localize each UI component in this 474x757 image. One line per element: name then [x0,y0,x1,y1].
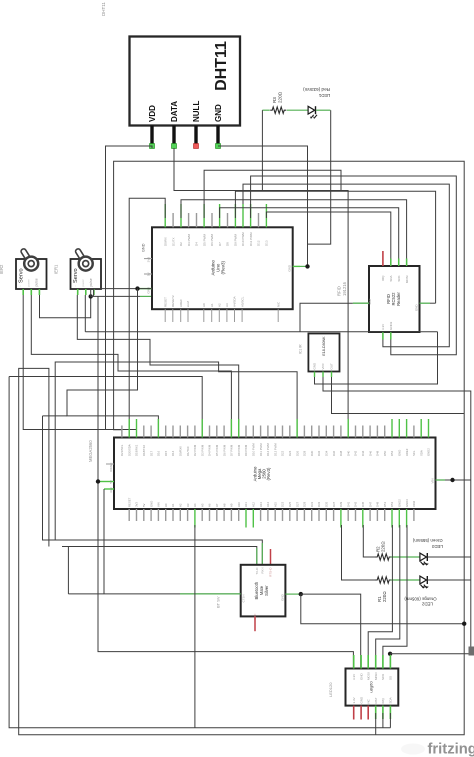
svg-text:D23: D23 [281,501,285,507]
module u8g60 title [369,681,374,693]
resistor R1 [375,577,391,583]
svg-text:D13: D13 [265,240,269,246]
svg-text:GND: GND [359,673,363,681]
E18 pin OUT [330,363,334,377]
u8g60 bottom pin SDA [389,697,393,719]
servo IER1 pin label gnd [73,286,77,287]
Uno top pin D12 [257,213,261,246]
svg-text:E18-D80NK: E18-D80NK [322,336,326,356]
junction servo gnd node [89,294,93,298]
svg-text:D10 PWM: D10 PWM [241,232,245,246]
long wire under Uno [85,331,437,333]
Uno top pin D13 [265,204,269,246]
wire servo2 gnd node [93,289,95,296]
Mega left pin 3V3 [104,487,114,493]
svg-text:RFID: RFID [337,286,342,296]
wire LED2 right [427,579,471,581]
svg-text:A1: A1 [210,303,214,307]
svg-text:D49: D49 [376,501,380,507]
RFID top pin SDA [389,259,393,282]
svg-text:D32: D32 [317,450,321,456]
junction LCD SS node [388,652,392,656]
svg-text:D1/TX: D1/TX [171,237,175,246]
Mega bottom pin D35 [325,501,329,521]
Mega top pin D44 [361,426,365,457]
svg-text:D1/TX0: D1/TX0 [186,446,190,456]
BT top pin RX-I [261,567,265,573]
DHT11 pin leg NULL [194,126,197,145]
label R3 [272,91,282,103]
Mega top pin D24 [288,426,292,457]
svg-text:Red (633nm): Red (633nm) [303,87,330,92]
servo IER1 horn [78,251,93,270]
Mega bottom pin D31 [310,501,314,521]
Mega top pin D3 PWM [200,419,204,456]
Mega top pin D0/RX0 [179,426,183,457]
Mega top pin D4 PWM [208,426,212,457]
E18 pin GND [313,362,317,377]
svg-text:D42: D42 [354,450,358,456]
label LED2 [404,597,437,607]
wire LED1 branch left segment [262,109,269,111]
svg-text:5V: 5V [109,480,113,484]
svg-text:A0: A0 [164,503,168,507]
fritzing logo text [428,742,474,757]
Mega bottom pin 5V [142,503,146,521]
svg-text:3V3: 3V3 [147,257,151,263]
RFID top pin MOSI [405,259,409,284]
Mega top pin D48 [376,426,380,457]
Mega top pin D2 PWM [193,426,197,457]
svg-text:IRQ: IRQ [381,698,385,704]
servo IER1 pin label power [81,279,85,286]
svg-text:A7: A7 [215,503,219,507]
Mega bottom pin A15 [273,502,277,521]
u8g60 bottom pin GND [359,696,363,720]
wire servo1 gnd to node [40,295,91,318]
E18 pin VCC [321,362,325,377]
wire Uno D13 to RFID [266,212,390,266]
svg-text:A3: A3 [225,303,229,307]
svg-text:D21/SCL: D21/SCL [120,444,124,456]
Mega top pin D8 PWM [237,419,241,456]
Uno bottom pin RESET [163,297,167,322]
svg-text:D0/RX0: D0/RX0 [179,446,183,456]
Mega bottom pin VIN [157,502,161,521]
svg-text:RESET2: RESET2 [171,295,175,307]
Uno bottom pin A4/SDA [233,296,237,322]
svg-text:MOSI: MOSI [366,672,370,680]
svg-text:LED3: LED3 [431,544,443,549]
svg-text:NULL: NULL [192,101,201,122]
Uno GND label [142,243,146,252]
wire LED1 right segment [316,109,331,111]
wire Uno D8 to RFID GND [235,191,435,303]
svg-text:A5: A5 [200,503,204,507]
wire E18 GND [315,332,438,384]
svg-text:3V3: 3V3 [135,502,139,507]
junction BT GND at outer rail [462,622,466,626]
svg-text:RX-I: RX-I [261,567,265,573]
wire BT CTS-I up [67,547,69,594]
svg-text:LED2: LED2 [421,602,433,607]
wire RFID GND to rail [430,302,436,304]
label LED1 [303,87,331,98]
svg-text:Silver: Silver [264,585,269,596]
DHT11 pin label VDD [148,105,157,122]
Uno top pin D8 [226,213,230,246]
mcu Arduino Mega outline [114,438,436,510]
svg-text:A2: A2 [218,303,222,307]
svg-text:GND: GND [142,243,146,252]
Mega bottom pin GND [149,501,153,521]
Mega bottom pin A8 [222,503,226,521]
Mega left pin IOREF [106,462,114,471]
svg-text:D0/RX: D0/RX [163,237,167,246]
sensor E18-D80NK title [322,336,326,356]
Uno left pin 3V3 [144,257,152,263]
svg-text:D6 PWM: D6 PWM [210,233,214,246]
svg-text:3.3V: 3.3V [381,324,385,330]
svg-text:D25: D25 [288,501,292,507]
wire BT RTS-O red stub [270,549,272,565]
svg-text:MEGA2560: MEGA2560 [88,440,93,462]
svg-text:D40: D40 [346,450,350,456]
Mega bottom pin D23 [281,501,285,521]
servo IER2 pin label pulse [35,278,39,286]
svg-text:AREF: AREF [179,299,183,307]
wire Uno D2 to RFID [181,200,407,266]
svg-text:D12 PWM: D12 PWM [266,443,270,456]
svg-text:220Ω: 220Ω [381,541,386,552]
Mega top pin D40 [346,419,350,456]
wire BT GND to LCD GND [301,594,361,668]
svg-text:D9 PWM: D9 PWM [234,233,238,246]
DHT11 terminal NULL [194,144,199,149]
svg-text:DATA: DATA [170,101,179,122]
Mega bottom pin A3 [186,503,190,521]
servo IER2 pin label gnd [19,286,23,287]
u8g60 top pin MOSI [366,655,370,680]
Mega top pin D34 [325,426,329,457]
Mega bottom pin D49 [376,501,380,521]
Uno bottom pin A5/SCL [240,296,244,322]
svg-text:Servo: Servo [73,268,79,283]
Mega top pin D30 [310,426,314,457]
Mega bottom pin D41 [346,501,350,521]
wire Uno D7 to RFID [220,208,399,266]
junction Uno GND node [305,264,309,268]
wire LED1 branch to DATA line [261,110,263,190]
wire big outer loop [19,161,465,734]
svg-text:D38: D38 [339,450,343,456]
Mega top pin D42 [354,426,358,457]
servo IER2 pin stub 1 [22,289,24,295]
svg-text:A4: A4 [193,503,197,507]
Mega top pin SDA [419,419,423,456]
svg-text:A10: A10 [237,502,241,507]
svg-text:GND2: GND2 [389,321,393,330]
module u8g60 outline [346,669,399,706]
BT bottom pin VCC [253,613,257,620]
u8g60 top pin GND [359,655,363,680]
wire R1 to LED2 [391,579,420,581]
svg-text:RESET: RESET [163,297,167,307]
junction Uno left wire [135,286,139,290]
svg-text:D10 PWM: D10 PWM [252,443,256,456]
svg-text:D46: D46 [368,450,372,456]
svg-text:D7: D7 [218,242,222,246]
servo IER1 pin stub 2 [85,289,87,295]
svg-text:pulse: pulse [35,278,39,286]
svg-text:D16: D16 [157,450,161,456]
wire mega to LCD MISO [376,525,400,669]
Mega bottom pin A13 [259,502,263,521]
wire Uno right GND green [300,265,308,267]
LED LED2 [420,576,429,588]
svg-text:D5 PWM: D5 PWM [202,233,206,246]
svg-text:D48: D48 [376,450,380,456]
Mega bottom pin A14 [266,502,270,521]
svg-text:D20/SDA: D20/SDA [127,444,131,456]
Mega bottom pin D39 [339,501,343,527]
Mega bottom pin D33 [317,501,321,521]
servo IER2 title [19,268,25,283]
wire R2 to LED3 [391,556,420,558]
svg-text:5V: 5V [142,503,146,507]
svg-text:D44: D44 [361,450,365,456]
Mega top pin D16 [157,419,161,456]
module RFID-RC522 title [386,292,401,306]
wire inner bottom loop [9,377,390,728]
svg-text:D8: D8 [226,242,230,246]
Mega top pin D38 [339,426,343,457]
servo IER1 body [71,259,102,289]
Mega bottom pin D45 [361,501,365,527]
svg-text:A9: A9 [230,503,234,507]
svg-text:D43: D43 [354,501,358,507]
Uno bottom pin A1 [210,303,214,322]
Mega top pin D5 PWM [215,426,219,457]
u8g60 top pin SS [389,655,393,680]
net stub box right edge [469,647,474,656]
part label RFID 191216 [337,281,348,296]
svg-text:D5 PWM: D5 PWM [215,444,219,456]
svg-text:D24: D24 [288,450,292,456]
DHT11 terminal VDD [150,144,155,149]
part label MEGA2560 [88,440,93,462]
Mega top pin D18/TX2 [142,426,146,457]
label R2 [376,541,386,552]
Uno top pin D3 PWM [187,213,191,246]
Mega top pin D52 [390,419,394,456]
Mega right pin VIN [431,479,446,484]
u8g60 top pin SCK [381,655,385,680]
wire servo gnd node right [91,295,152,297]
svg-text:A6: A6 [208,503,212,507]
wire servo2 power to long line [84,295,86,332]
svg-text:D12: D12 [257,240,261,246]
svg-text:D11 PWM: D11 PWM [259,443,263,456]
svg-text:N/C: N/C [276,301,280,307]
junction Mega VIN [450,478,454,482]
u8g60 bottom pin RST [374,697,378,719]
RFID bottom pin 3.3V [381,324,385,340]
svg-text:VIN2: VIN2 [412,500,416,507]
svg-text:-: - [73,286,77,287]
Uno top pin D5 PWM [202,204,206,246]
wire mega to LCD MOSI [368,525,392,669]
wire servo1 power down [23,295,105,430]
svg-text:220Ω: 220Ω [382,591,387,602]
wire Uno D0 to mega [129,198,165,437]
Uno bottom pin N/C [276,301,280,322]
Uno bottom pin RESET2 [171,295,175,322]
DHT11 pin leg GND [216,126,219,145]
svg-text:IC1 IR: IC1 IR [299,344,303,354]
svg-text:DHT11: DHT11 [101,2,106,16]
DHT11 pin label GND [214,104,223,122]
u8g60 bottom pin IRQ [381,698,385,720]
Mega bottom pin 3V3 [135,502,139,521]
svg-text:VIN: VIN [431,479,435,484]
Mega bottom pin D53 [390,501,394,527]
svg-text:A0: A0 [202,303,206,307]
wire outer loop to mega pin [9,377,202,438]
Uno top pin D10 PWM [241,204,245,246]
Uno top pin D2 [179,204,183,246]
svg-text:LED1: LED1 [318,93,330,98]
svg-text:pulse: pulse [89,278,93,286]
svg-text:SCL: SCL [412,450,416,456]
Mega top pin D14 [171,426,175,457]
Mega bottom pin A6 [208,503,212,521]
wire BT CTS-I left [68,593,240,595]
svg-text:D34: D34 [325,450,329,456]
wire BT RX-I chain [43,416,263,565]
Mega bottom pin A2 [179,503,183,521]
svg-text:(Rev3): (Rev3) [221,260,226,274]
Mega top pin D15 [164,426,168,457]
BT right pin GND [281,593,285,601]
svg-text:RTS-O: RTS-O [269,567,273,577]
Mega top pin SCL [412,426,416,457]
svg-text:D53: D53 [390,501,394,507]
svg-text:GND: GND [313,362,317,370]
svg-text:ioref: ioref [186,301,190,307]
svg-text:D11 PWM: D11 PWM [249,232,253,246]
junction BT GND [299,592,303,596]
wire cross link 362 [55,362,297,540]
Mega bottom pin A1 [171,503,175,521]
part label IER1 [54,264,59,274]
Mega top pin D9 PWM [244,426,248,457]
svg-text:D30: D30 [310,450,314,456]
wire Uno left pin to servo node [91,289,152,297]
BT VCC red stub [254,616,256,631]
DHT11 pin label DATA [170,101,179,122]
wire D9 chain to RFID [243,184,449,347]
mcu Arduino Uno outline [152,227,293,309]
Mega bottom pin D25 [288,501,292,521]
svg-text:191216: 191216 [342,281,347,296]
svg-text:power: power [81,279,85,286]
svg-text:GND: GND [281,593,285,601]
svg-text:TX-O: TX-O [255,567,259,575]
svg-text:D15: D15 [164,450,168,456]
svg-text:D51: D51 [383,501,387,507]
svg-text:D2: D2 [179,242,183,246]
svg-text:GND: GND [398,450,402,456]
servo IER1 pin label pulse [89,278,93,286]
svg-text:D28: D28 [303,450,307,456]
svg-text:A1: A1 [171,503,175,507]
label R1 [377,591,387,602]
svg-text:D17: D17 [149,450,153,456]
svg-text:SS: SS [389,676,393,680]
wire BT TX-O chain [62,547,257,565]
wire E18 VCC [323,377,471,654]
wire D10 chain to RFID [251,176,457,355]
LED LED1 [308,106,317,118]
wire Uno D5 up [204,170,341,218]
svg-text:MISO: MISO [374,672,378,680]
svg-text:VDD: VDD [148,105,157,122]
svg-text:D14: D14 [171,450,175,456]
svg-text:D13 PWM: D13 PWM [273,443,277,456]
svg-text:RESET: RESET [127,497,131,507]
Mega top pin D32 [317,426,321,457]
wire servo1 pulse to mega [31,295,231,438]
svg-text:GND: GND [149,501,153,507]
wire H415 cross to mega [43,289,159,438]
svg-text:5V: 5V [147,272,151,276]
svg-text:D52: D52 [390,450,394,456]
wire DHT GND to Uno GND node [218,146,308,266]
wire DHT DATA down [174,148,348,438]
Mega bottom pin A9 [230,503,234,521]
Uno bottom pin ioref [186,301,190,322]
mcu Arduino Uno title [211,259,226,275]
svg-text:SCK: SCK [397,276,401,282]
RFID red stub up [382,251,384,266]
wire servo2 pulse to mega [77,295,238,438]
wire Mega VIN to node [445,479,471,481]
svg-text:BT SV: BT SV [216,596,221,608]
wire mega pin down left [194,525,196,728]
svg-text:MOSI: MOSI [405,275,409,283]
svg-text:A13: A13 [259,502,263,507]
svg-text:D3 PWM: D3 PWM [200,444,204,456]
svg-text:-: - [19,286,23,287]
svg-text:SDA: SDA [389,276,393,282]
u8g60 top pin 3.3V [352,655,356,680]
part label IC1 IR [299,344,303,354]
svg-text:A4/SDA: A4/SDA [233,296,237,307]
servo IER2 pin label power [27,279,31,286]
servo IER1 pin stub 3 [93,289,95,295]
DHT11 terminal GND [216,144,221,149]
Uno bottom pin AREF [179,299,183,322]
Mega top pin D46 [368,426,372,457]
svg-text:IOREF: IOREF [109,462,113,471]
module Bluetooth Mate Silver outline [241,565,286,617]
Mega top pin GND2 [427,419,431,456]
svg-text:D33: D33 [317,501,321,507]
BT left pin CTS-I [242,594,246,602]
Mega bottom pin A12 [252,502,256,528]
Uno top pin D4 [195,213,199,246]
